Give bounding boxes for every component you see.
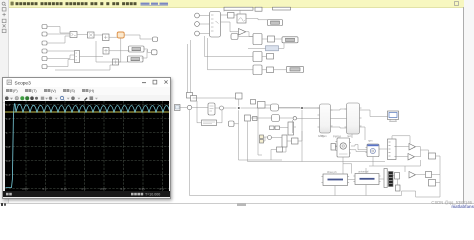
svg-text:0.8: 0.8: [6, 145, 11, 149]
svg-text:(T): (T): [32, 89, 37, 93]
svg-text:rpm: rpm: [368, 139, 372, 143]
svg-text:(V): (V): [51, 89, 56, 93]
svg-text:Scope3: Scope3: [15, 81, 32, 87]
svg-text:PMSM: PMSM: [333, 135, 341, 139]
svg-text:bridge1: bridge1: [318, 134, 327, 138]
svg-text:1.2: 1.2: [6, 117, 11, 121]
svg-text:universal: universal: [358, 170, 369, 174]
svg-text:rect: rect: [347, 134, 352, 138]
svg-text:T=10.000: T=10.000: [145, 193, 160, 197]
svg-text:(F): (F): [13, 89, 18, 93]
svg-text:0.4: 0.4: [6, 173, 11, 177]
svg-text:1.4: 1.4: [6, 103, 11, 107]
svg-text:(H): (H): [89, 89, 94, 93]
svg-text:0.6: 0.6: [6, 159, 11, 163]
svg-text:(S): (S): [70, 89, 75, 93]
svg-text:three ph: three ph: [327, 170, 337, 174]
